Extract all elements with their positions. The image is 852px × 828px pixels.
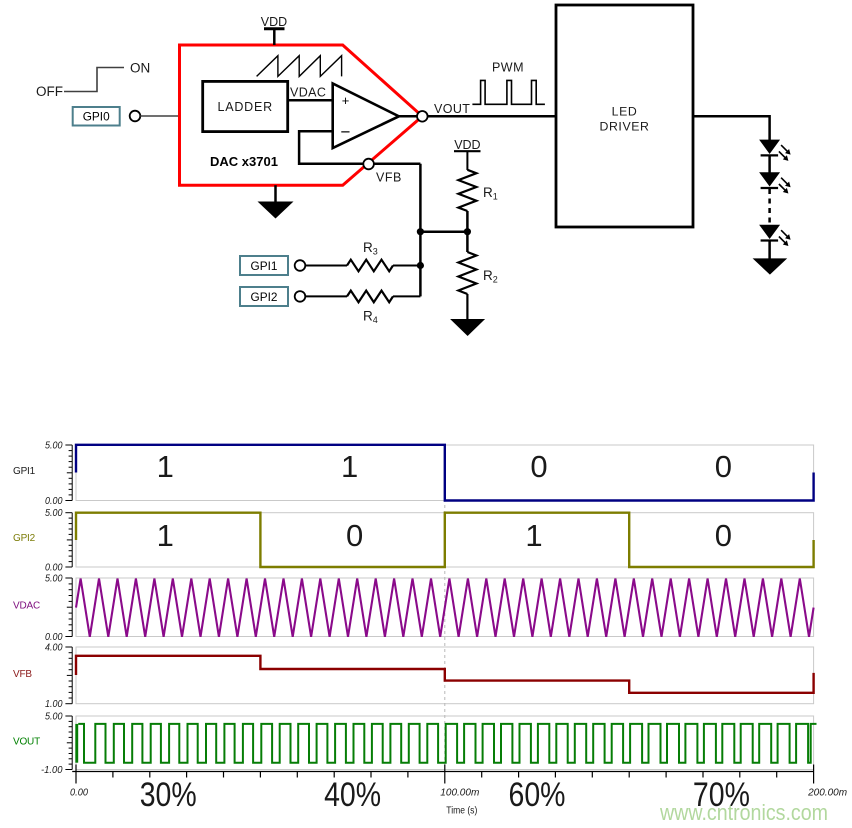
svg-text:ON: ON: [130, 61, 150, 76]
svg-text:5.00: 5.00: [45, 441, 63, 452]
svg-text:1.00: 1.00: [45, 699, 63, 710]
svg-text:VFB: VFB: [13, 669, 32, 680]
svg-text:0.00: 0.00: [70, 788, 88, 799]
signal name labels: [13, 466, 40, 748]
svg-text:VOUT: VOUT: [434, 102, 470, 116]
GPI0 label box: [73, 107, 120, 126]
resistor R4: [347, 291, 393, 325]
junction dot B: [417, 262, 424, 269]
ground below R2: [450, 319, 485, 336]
wire GPI1 to R3: [305, 265, 347, 267]
trace VDAC (purple triangle wave): [76, 579, 814, 637]
svg-text:LED: LED: [612, 105, 638, 119]
trace GPI2 (olive): [76, 513, 814, 567]
svg-text:VDAC: VDAC: [13, 601, 40, 612]
svg-text:GPI1: GPI1: [251, 259, 278, 273]
node VFB terminal circle: [363, 159, 374, 170]
GPI2 terminal circle: [295, 291, 306, 302]
svg-text:0: 0: [715, 518, 732, 553]
svg-text:GPI2: GPI2: [13, 533, 36, 544]
switch OFF/ON signal: [36, 61, 150, 100]
svg-text:DAC x3701: DAC x3701: [210, 154, 278, 169]
GPI1 terminal circle: [295, 260, 306, 271]
oscillogram panel frames and axes: [41, 441, 814, 777]
ground below DAC: [258, 185, 294, 218]
svg-text:VDAC: VDAC: [290, 86, 326, 100]
svg-text:LADDER: LADDER: [217, 100, 273, 114]
resistor R3: [347, 240, 393, 271]
svg-text:5.00: 5.00: [45, 574, 63, 585]
power VDD (top): [261, 15, 287, 45]
svg-text:100.00m: 100.00m: [440, 788, 479, 799]
wire VFB node down to divider: [419, 164, 422, 297]
trace VOUT (green square wave): [75, 724, 78, 763]
time axis: [70, 765, 847, 817]
ground below LED string: [753, 258, 788, 274]
LED D3: [760, 225, 791, 246]
svg-text:OFF: OFF: [36, 84, 63, 99]
svg-text:0.00: 0.00: [45, 563, 63, 574]
trace VFB (dark red steps): [76, 656, 814, 693]
GPI1 bit value annotations: [157, 449, 732, 484]
wire D3 to ground: [768, 242, 771, 260]
junction dot divider tap: [464, 228, 471, 235]
svg-text:4.00: 4.00: [45, 643, 63, 654]
svg-text:0: 0: [715, 449, 732, 484]
wire GPI2 to R4: [305, 295, 347, 297]
GPI0 terminal circle: [130, 111, 141, 122]
time cursor dashed line at 100m: [444, 445, 446, 772]
svg-text:1: 1: [157, 449, 174, 484]
svg-text:+: +: [342, 93, 350, 108]
power VDD (R1): [454, 138, 481, 170]
svg-text:1: 1: [525, 518, 542, 553]
node VOUT terminal circle: [417, 111, 428, 122]
GPI2 bit value annotations: [157, 518, 732, 553]
LED DRIVER block: [556, 5, 693, 227]
svg-text:DRIVER: DRIVER: [599, 120, 649, 134]
trace GPI1 (navy): [76, 445, 814, 501]
svg-text:VDD: VDD: [454, 138, 480, 152]
svg-text:GPI2: GPI2: [251, 290, 278, 304]
svg-text:200.00m: 200.00m: [807, 788, 847, 799]
LED D2: [760, 173, 791, 194]
svg-text:VDD: VDD: [261, 15, 287, 29]
svg-text:0.00: 0.00: [45, 632, 63, 643]
PWM pulse waveform: [472, 80, 545, 104]
GPI1 label box: [240, 256, 288, 275]
svg-text:VFB: VFB: [376, 171, 402, 185]
svg-text:0.00: 0.00: [45, 496, 63, 507]
wire VDAC net: [288, 99, 333, 102]
GPI2 label box: [240, 287, 288, 306]
svg-text:30%: 30%: [140, 776, 197, 814]
svg-text:40%: 40%: [324, 776, 381, 814]
svg-text:-1.00: -1.00: [41, 765, 63, 776]
wire LED driver to LED string: [693, 116, 770, 140]
wire junction to R1/R2 tap: [420, 230, 467, 233]
LADDER block: [203, 81, 288, 131]
svg-text:60%: 60%: [509, 776, 566, 814]
svg-text:1: 1: [341, 449, 358, 484]
wire VOUT to LED driver: [428, 115, 556, 118]
wire GPI0 to DAC block: [140, 115, 178, 117]
duty cycle percent labels: [140, 776, 750, 814]
svg-text:−: −: [341, 123, 351, 142]
svg-text:Time (s): Time (s): [446, 806, 477, 817]
wire R4 to node: [393, 295, 420, 297]
svg-text:5.00: 5.00: [45, 712, 63, 723]
DAC block red outline U1: [180, 45, 423, 185]
svg-text:1: 1: [157, 518, 174, 553]
resistor R1: [458, 170, 497, 232]
svg-text:0: 0: [530, 449, 547, 484]
wire op-amp inverting input / feedback: [299, 131, 420, 163]
svg-text:GPI0: GPI0: [83, 110, 110, 124]
wire op-amp output to VOUT node: [399, 115, 422, 118]
svg-text:0: 0: [346, 518, 363, 553]
svg-text:VOUT: VOUT: [13, 737, 40, 748]
dashed wire (more LEDs): [768, 189, 771, 224]
junction dot A: [417, 228, 424, 235]
wire R3 to node: [393, 265, 420, 267]
resistor R2: [458, 232, 497, 320]
wire D1-D2: [768, 156, 771, 172]
svg-text:www.cntronics.com: www.cntronics.com: [659, 800, 828, 825]
svg-text:5.00: 5.00: [45, 508, 63, 519]
svg-text:PWM: PWM: [492, 61, 524, 75]
sawtooth symbol: [257, 56, 342, 77]
op-amp U2: [333, 84, 399, 149]
LED D1: [760, 140, 791, 161]
svg-text:GPI1: GPI1: [13, 466, 36, 477]
